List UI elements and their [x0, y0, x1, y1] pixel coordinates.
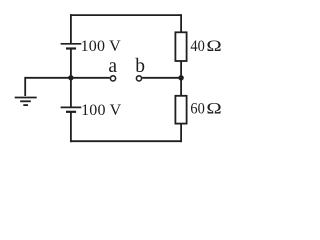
svg-text:40: 40: [190, 37, 205, 55]
svg-text:Ω: Ω: [206, 37, 221, 54]
svg-text:100 V: 100 V: [81, 102, 122, 119]
svg-text:100 V: 100 V: [81, 38, 122, 55]
svg-text:60: 60: [190, 100, 205, 118]
svg-text:a: a: [108, 56, 117, 77]
svg-text:b: b: [135, 56, 145, 77]
svg-text:Ω: Ω: [206, 100, 221, 117]
